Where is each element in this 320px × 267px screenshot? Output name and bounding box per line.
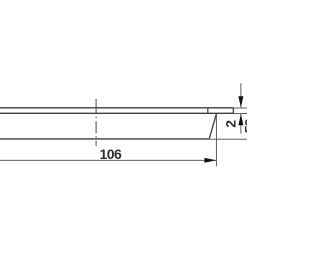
svg-text:59: 59 xyxy=(241,118,247,133)
arrowhead 106 right xyxy=(204,158,216,163)
dimension line 2 upper xyxy=(240,83,242,107)
flange profile top edge xyxy=(0,107,233,109)
dimension line 106 xyxy=(0,159,216,161)
dimension text 2 (rotated) xyxy=(223,120,239,128)
extension line flange top (right) xyxy=(233,107,247,109)
dimension text 15 (rotated, cut off at image edge) xyxy=(241,118,257,133)
centerline (dash-dot) xyxy=(95,99,97,147)
extension line bowl bottom (right) xyxy=(209,138,247,140)
recess bowl bottom edge xyxy=(0,138,209,140)
recess bowl right slant wall xyxy=(209,114,216,139)
flange right end edge xyxy=(232,108,234,114)
svg-text:2: 2 xyxy=(223,120,239,128)
arrowhead 2 up xyxy=(238,114,243,125)
dimension line 2 lower xyxy=(240,114,242,134)
extension line flange bottom (right) xyxy=(233,113,247,115)
extension line right of slant top xyxy=(215,114,217,166)
svg-text:106: 106 xyxy=(99,146,122,162)
flange profile bottom edge xyxy=(0,112,233,114)
flange divider joint xyxy=(207,108,209,114)
arrowhead 2 down xyxy=(238,96,243,107)
